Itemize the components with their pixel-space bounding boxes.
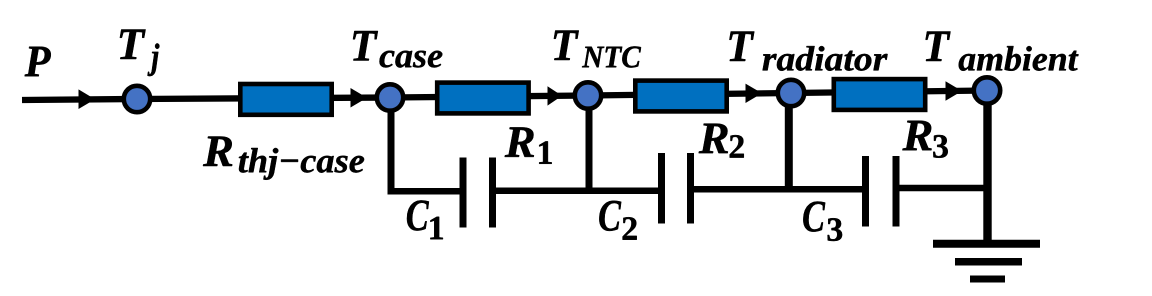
label Rthj-case: [203, 137, 364, 180]
label C1: [407, 200, 443, 239]
wire stub below Tambient to ground: [983, 91, 991, 244]
node Tcase: [377, 84, 403, 110]
wire arrowhead A3: [548, 86, 563, 105]
node Tj: [124, 86, 150, 112]
label R1: [505, 127, 552, 163]
wire stub below TNTC: [586, 96, 593, 191]
wire arrowhead A4: [746, 84, 763, 103]
label Tcase: [353, 31, 442, 68]
node Tambient: [974, 77, 1000, 103]
label TNTC: [554, 31, 641, 68]
label Tj: [120, 30, 159, 77]
wire arrowhead A2: [351, 88, 368, 108]
label P: [25, 47, 51, 76]
resistor R2: [635, 81, 726, 112]
resistor R3: [834, 79, 925, 110]
node TNTC: [575, 82, 601, 108]
wire rail C3 to ground stub: [898, 185, 991, 192]
wire rail C2 to C3: [692, 186, 864, 193]
label C3: [803, 202, 842, 242]
ground: [933, 244, 1040, 279]
capacitor C1: [463, 158, 493, 228]
wire rail Tcase to C1: [388, 188, 462, 195]
wire stub below Tcase: [388, 98, 395, 192]
wire main horizontal: [22, 91, 987, 101]
label R2: [699, 124, 744, 158]
wire arrowhead A5: [946, 81, 963, 100]
wire stub below Tradiator: [785, 93, 793, 189]
wire rail C1 to C2: [494, 187, 660, 194]
label Tradiator: [729, 32, 887, 71]
resistor Rthj-case: [240, 84, 331, 115]
label R3: [902, 121, 947, 158]
node Tradiator: [778, 80, 804, 106]
label C2: [599, 201, 636, 240]
wire arrowhead A1: [79, 89, 96, 109]
capacitor C2: [662, 153, 691, 224]
label Tambient: [926, 32, 1079, 71]
capacitor C3: [866, 156, 897, 227]
resistor R1: [437, 83, 528, 114]
